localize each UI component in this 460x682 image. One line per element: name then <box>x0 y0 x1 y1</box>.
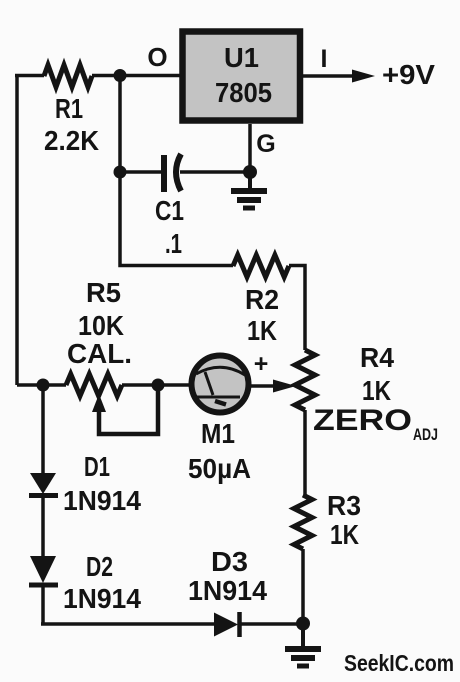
regulator U1 7805 <box>183 32 301 121</box>
node bottom junction <box>296 617 310 631</box>
node junction at R1 / U1 input <box>114 69 127 82</box>
svg-text:CAL.: CAL. <box>67 338 132 369</box>
resistor R2 <box>233 255 289 277</box>
svg-text:+: + <box>254 350 269 378</box>
wire R1 to U1 <box>92 74 181 78</box>
svg-text:G: G <box>256 130 275 158</box>
svg-text:ADJ: ADJ <box>413 425 438 444</box>
wire U1 G pin down <box>248 124 252 172</box>
wire M1 to R4 wiper arrow <box>249 384 278 388</box>
svg-text:D2: D2 <box>86 551 113 582</box>
svg-text:C1: C1 <box>155 195 184 226</box>
svg-text:7805: 7805 <box>215 77 272 108</box>
svg-text:I: I <box>321 45 328 73</box>
wire U1 output to +9V arrow <box>301 74 360 78</box>
svg-text:1K: 1K <box>330 519 359 550</box>
svg-text:R4: R4 <box>360 342 394 373</box>
svg-text:10K: 10K <box>78 310 124 341</box>
ground bottom right <box>285 624 321 666</box>
resistor R3 <box>294 495 312 549</box>
svg-text:R5: R5 <box>86 277 121 308</box>
wire bottom row <box>41 622 214 626</box>
svg-text:ZERO: ZERO <box>313 404 412 437</box>
svg-text:D1: D1 <box>84 451 110 482</box>
diode D3 <box>188 546 303 637</box>
svg-text:D3: D3 <box>211 546 248 577</box>
svg-text:2.2K: 2.2K <box>44 125 99 156</box>
svg-text:U1: U1 <box>224 42 259 73</box>
wire R5 wiper arm to right terminal <box>92 388 158 434</box>
wire R4 to R3 <box>303 410 307 495</box>
svg-text:1N914: 1N914 <box>63 485 141 516</box>
wire R3 to bottom junction <box>301 549 305 624</box>
svg-text:1K: 1K <box>247 315 277 346</box>
node D1 top junction <box>37 379 50 392</box>
svg-text:+9V: +9V <box>382 59 435 90</box>
diode D1 <box>29 385 141 556</box>
meter M1 <box>188 356 251 485</box>
svg-text:M1: M1 <box>201 418 235 449</box>
svg-text:R3: R3 <box>327 490 361 521</box>
node R5 right junction <box>152 379 165 392</box>
wire top from rail to R1 <box>15 74 44 78</box>
node C1 left junction <box>114 166 127 179</box>
svg-text:1N914: 1N914 <box>63 583 141 614</box>
svg-text:.1: .1 <box>165 228 182 259</box>
svg-text:1N914: 1N914 <box>188 575 267 606</box>
resistor R4 potentiometer <box>295 350 315 410</box>
wire junction down to C1 <box>118 75 122 172</box>
node G junction <box>243 165 257 179</box>
resistor R5 CAL potentiometer <box>66 374 122 396</box>
svg-text:50µA: 50µA <box>188 453 251 484</box>
ground under U1 <box>231 172 267 208</box>
capacitor C1 <box>120 154 250 259</box>
resistor R1 <box>44 65 92 87</box>
diode D2 <box>29 551 141 624</box>
wire R2 to right rail down <box>289 266 305 351</box>
wire left vertical rail <box>15 75 19 385</box>
svg-text:R2: R2 <box>245 284 279 315</box>
wire CAL row <box>17 383 66 387</box>
wire R5 to M1 <box>122 383 191 387</box>
svg-text:SeekIC.com: SeekIC.com <box>344 650 454 676</box>
wire C1 junction down and right to R2 <box>120 172 233 266</box>
svg-text:O: O <box>147 42 167 72</box>
svg-text:R1: R1 <box>55 93 83 124</box>
svg-text:1K: 1K <box>362 375 391 406</box>
